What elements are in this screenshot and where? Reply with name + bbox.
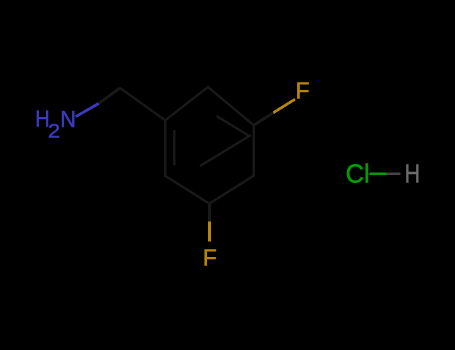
- svg-text:Cl: Cl: [346, 159, 370, 189]
- bond C3-F carbon half: [254, 113, 274, 126]
- bond N-CH2 nitrogen half: [76, 104, 99, 117]
- double bond inner line C4=C5: [200, 135, 251, 166]
- double bond inner line C6=C1: [173, 130, 175, 166]
- bond C5-F carbon half: [208, 204, 211, 222]
- svg-text:F: F: [296, 78, 310, 104]
- bond CH2-C1: [120, 88, 165, 120]
- bond C5-F fluorine half: [208, 221, 211, 241]
- svg-text:H: H: [405, 159, 421, 189]
- bond N-CH2 carbon half: [99, 88, 120, 104]
- bond Cl-H chlorine half: [370, 173, 387, 176]
- svg-text:F: F: [203, 244, 217, 270]
- svg-text:2: 2: [48, 121, 60, 142]
- bond Cl-H hydrogen half: [386, 173, 400, 176]
- svg-text:N: N: [60, 106, 76, 132]
- double bond inner line C2=C3: [217, 116, 250, 136]
- amine label H2N: [35, 106, 76, 143]
- benzene ring outline: [165, 87, 253, 204]
- bond C3-F fluorine half: [273, 99, 295, 113]
